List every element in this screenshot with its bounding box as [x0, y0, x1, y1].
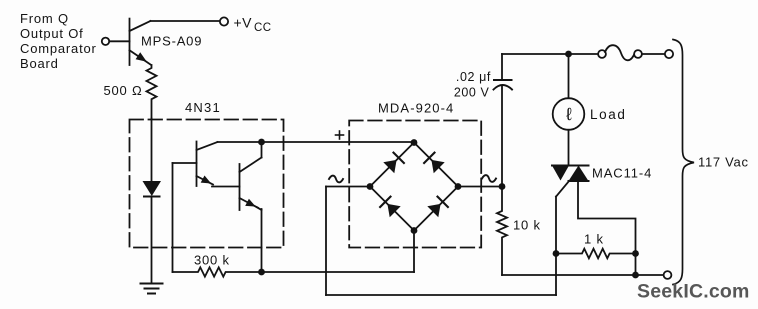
- node D junction dot (lamp tap): [565, 51, 572, 58]
- node B junction dot (emitter/300k): [258, 269, 265, 276]
- svg-text:Output Of: Output Of: [20, 26, 84, 41]
- wire base down to 300k: [172, 163, 174, 272]
- svg-text:CC: CC: [254, 22, 272, 34]
- svg-text:ℓ: ℓ: [565, 104, 572, 124]
- svg-text:117 Vac: 117 Vac: [698, 155, 749, 170]
- svg-text:MPS-A09: MPS-A09: [141, 34, 202, 49]
- diode D2 (right to top): [424, 153, 445, 174]
- svg-text:Load: Load: [590, 107, 626, 122]
- wire node B to bridge minus: [262, 231, 415, 273]
- resistor 500 ohm: [147, 65, 157, 119]
- resistor 1k: [556, 249, 636, 259]
- svg-text:200 V: 200 V: [454, 86, 490, 100]
- diode D1 (left to top): [383, 153, 404, 174]
- wire node D to lamp: [568, 54, 570, 98]
- wire bridge right ac to cap/10k line: [458, 186, 502, 188]
- lower AC terminal: [664, 271, 672, 279]
- wire input to Q1 base: [110, 40, 130, 42]
- label ~ right: [482, 175, 496, 182]
- node F junction dot (1k right / gate): [632, 250, 639, 257]
- wire triac gate: [578, 181, 636, 254]
- diode D3 (bottom to left): [380, 197, 401, 218]
- resistor 10k: [497, 187, 507, 276]
- wire 1k right down: [635, 254, 637, 276]
- svg-text:.02 μf: .02 μf: [456, 70, 491, 84]
- +Vcc terminal: [220, 17, 228, 25]
- svg-text:1 k: 1 k: [584, 232, 604, 247]
- label ~ left: [329, 176, 343, 183]
- svg-text:MAC11-4: MAC11-4: [592, 166, 652, 181]
- fuse F1: [598, 45, 664, 60]
- svg-text:500 Ω: 500 Ω: [104, 83, 143, 98]
- transistor Q2 (4N31 darlington first): [197, 142, 240, 187]
- wire Q1 collector to +Vcc: [151, 20, 220, 22]
- wire bridge left ac to triac MT1: [326, 187, 556, 296]
- svg-text:300 k: 300 k: [194, 253, 230, 268]
- node E junction dot (1k left / MT1): [553, 250, 560, 257]
- label +: [336, 131, 344, 139]
- bridge rectifier MDA-920-4 dashed box: [349, 121, 481, 248]
- wire lamp to triac: [568, 130, 570, 166]
- svg-text:4N31: 4N31: [185, 100, 221, 115]
- resistor 300k: [173, 267, 262, 276]
- ground: [141, 284, 163, 294]
- bridge vertex junction dots: [367, 139, 462, 234]
- node A junction dot (collector bus): [258, 139, 265, 146]
- upper AC terminal: [665, 50, 673, 58]
- svg-text:Comparator: Comparator: [20, 41, 97, 56]
- label .02 uf 200V: [454, 70, 491, 100]
- capacitor C1 .02uf: [494, 54, 513, 187]
- label: From Q Output Of Comparator Board: [20, 11, 97, 71]
- LED D5 (4N31 emitter diode): [143, 119, 162, 284]
- svg-text:MDA-920-4: MDA-920-4: [378, 101, 454, 116]
- svg-text:Board: Board: [20, 56, 59, 71]
- svg-text:From Q: From Q: [20, 11, 69, 26]
- node G junction dot (bottom line): [632, 272, 639, 279]
- transistor Q1 MPS-A09: [130, 19, 152, 65]
- wire Q2 collector to node A: [218, 141, 260, 143]
- wire 10k bottom to lower terminal: [502, 274, 664, 276]
- node C junction dot: [499, 183, 506, 190]
- optocoupler 4N31 dashed box: [130, 120, 284, 248]
- bridge diamond wires: [370, 143, 458, 231]
- lamp Load: [553, 98, 585, 130]
- wire top line: [502, 53, 598, 55]
- wire Q2 base left: [173, 162, 197, 164]
- wire node A to bridge +: [262, 141, 415, 143]
- svg-text:SeekIC.com: SeekIC.com: [637, 281, 750, 303]
- input terminal: [102, 38, 109, 45]
- svg-text:10 k: 10 k: [513, 218, 541, 233]
- triac Q4 MAC11-4: [552, 166, 589, 197]
- svg-text:+V: +V: [234, 15, 253, 31]
- brace 117 Vac: [673, 40, 694, 285]
- label +Vcc: [234, 15, 272, 35]
- diode D4 (bottom to right): [427, 197, 448, 218]
- transistor Q3 (4N31 darlington second): [240, 144, 262, 272]
